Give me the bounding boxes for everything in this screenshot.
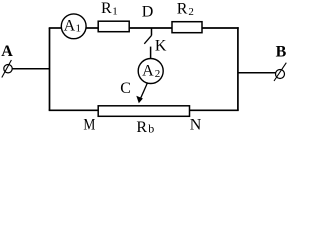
label R1 <box>101 0 118 18</box>
ammeter A2 <box>138 59 163 84</box>
terminal B <box>238 43 287 81</box>
svg-text:2: 2 <box>155 68 161 80</box>
svg-text:R: R <box>101 0 112 17</box>
svg-text:R: R <box>136 119 147 136</box>
svg-text:2: 2 <box>188 6 194 18</box>
wire: bottom right segment <box>190 109 239 111</box>
svg-text:R: R <box>177 0 188 17</box>
svg-text:A: A <box>64 17 76 34</box>
ammeter A1 <box>61 14 86 39</box>
wire: bottom left segment <box>49 109 99 111</box>
svg-text:B: B <box>276 43 287 60</box>
svg-text:A: A <box>142 62 154 79</box>
wire: R1 to R2 through node D <box>129 27 172 29</box>
switch K: lower stub <box>150 47 152 59</box>
svg-text:A: A <box>1 43 13 60</box>
svg-text:D: D <box>142 4 154 21</box>
rheostat Rb <box>98 106 189 117</box>
resistor R1 <box>98 21 129 32</box>
resistor R2 <box>172 22 202 33</box>
wire: right rail <box>237 27 239 110</box>
wire: R2 to right rail <box>202 27 239 29</box>
label R2 <box>177 0 194 18</box>
wire: left rail <box>49 28 51 111</box>
switch K: blade <box>144 35 151 44</box>
svg-text:1: 1 <box>76 23 82 35</box>
wire: top left segment <box>49 27 62 29</box>
terminal A <box>1 43 50 78</box>
svg-text:N: N <box>190 117 202 134</box>
label Rb <box>136 119 154 136</box>
svg-text:K: K <box>155 37 167 54</box>
switch K: upper stub <box>151 28 153 35</box>
svg-text:1: 1 <box>112 6 118 18</box>
svg-text:C: C <box>120 80 131 97</box>
svg-text:b: b <box>148 122 154 136</box>
wiper arrow from A2 to rheostat <box>136 83 147 104</box>
svg-text:M: M <box>83 117 95 134</box>
wire: A1 to R1 <box>86 27 99 29</box>
